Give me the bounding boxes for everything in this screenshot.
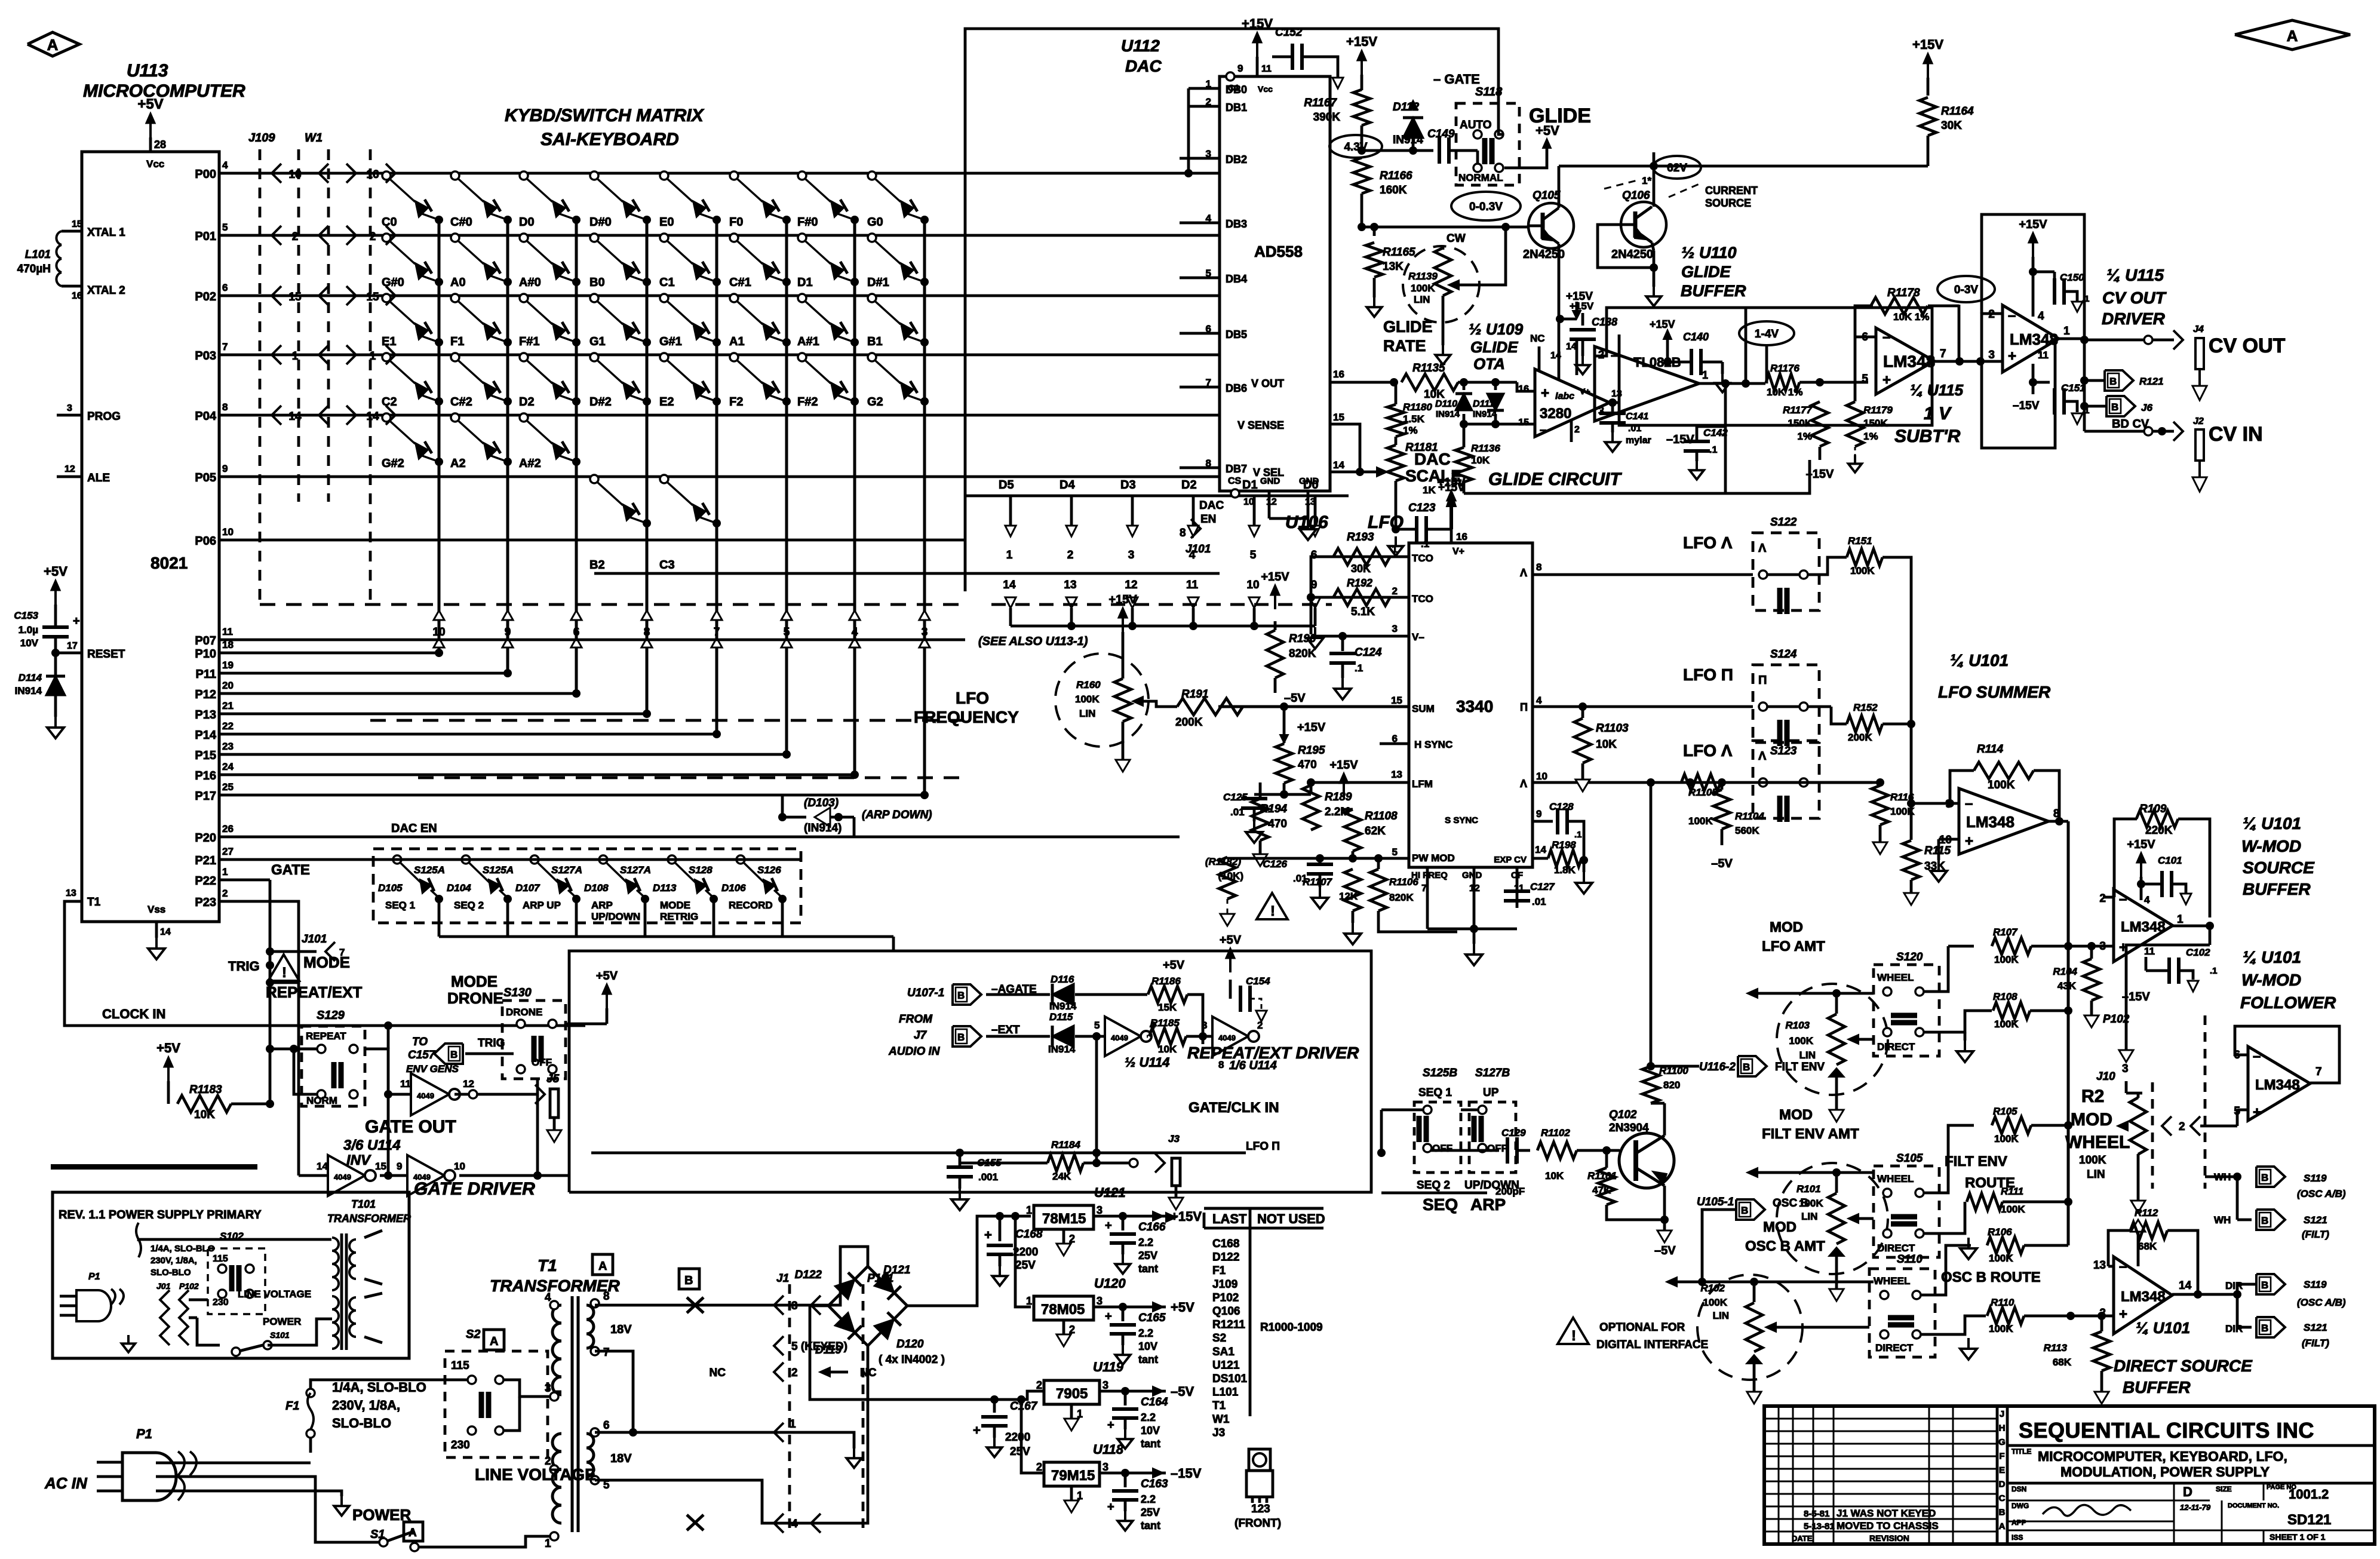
svg-text:D104: D104 <box>447 882 471 894</box>
svg-text:H: H <box>1999 1423 2006 1434</box>
svg-text:14: 14 <box>1333 459 1344 471</box>
svg-text:2: 2 <box>1392 585 1398 597</box>
svg-text:S125A: S125A <box>483 864 514 876</box>
svg-text:9: 9 <box>222 463 228 474</box>
svg-text:1.8K: 1.8K <box>1554 864 1576 876</box>
svg-text:5: 5 <box>1392 846 1398 858</box>
svg-text:S127A: S127A <box>620 864 651 876</box>
svg-text:8: 8 <box>603 1290 610 1303</box>
svg-text:GND: GND <box>1260 476 1280 486</box>
resistor R1101 47K <box>1598 1168 1615 1205</box>
svg-text:!: ! <box>1270 903 1275 919</box>
ic U106 3340 <box>1409 543 1533 867</box>
svg-text:3: 3 <box>1103 1379 1108 1391</box>
svg-text:DAC: DAC <box>1199 499 1224 512</box>
svg-text:AD558: AD558 <box>1254 243 1303 260</box>
svg-text:100K: 100K <box>1411 283 1435 294</box>
svg-text:SLO-BLO: SLO-BLO <box>151 1268 191 1278</box>
svg-text:P10: P10 <box>195 647 216 661</box>
ground below D114 <box>54 717 57 728</box>
wire wmod out down <box>2209 926 2212 945</box>
svg-text:S105: S105 <box>1896 1152 1923 1165</box>
svg-text:3: 3 <box>67 403 72 413</box>
svg-text:( 4x IN4002 ): ( 4x IN4002 ) <box>879 1354 945 1366</box>
svg-text:2: 2 <box>370 231 376 243</box>
svg-text:+15V: +15V <box>1297 721 1326 734</box>
svg-text:REVISION: REVISION <box>1869 1533 1909 1543</box>
svg-text:1.0µ: 1.0µ <box>19 624 38 636</box>
svg-text:15: 15 <box>288 291 302 303</box>
svg-text:R110: R110 <box>1991 1297 2014 1308</box>
svg-text:10: 10 <box>1243 497 1254 507</box>
svg-text:D: D <box>1999 1480 2006 1490</box>
wire matrix column 8 <box>923 220 926 795</box>
svg-text:D106: D106 <box>721 882 746 894</box>
pin 16 V+ +15V <box>1450 515 1453 543</box>
wire J101 common to ground <box>1011 625 1315 628</box>
svg-text:¼ U101: ¼ U101 <box>2243 814 2301 833</box>
key switch+diode C3 <box>660 475 668 483</box>
svg-text:DOCUMENT NO.: DOCUMENT NO. <box>2228 1502 2279 1509</box>
svg-text:D2: D2 <box>519 395 535 409</box>
switch S129 REPEAT/NORM <box>302 1026 365 1106</box>
switch S126 diode D106 <box>736 855 745 864</box>
svg-text:IN914: IN914 <box>1436 409 1460 419</box>
svg-text:tant: tant <box>1138 1354 1158 1365</box>
svg-text:D120: D120 <box>896 1338 924 1351</box>
svg-text:1-4V: 1-4V <box>1755 328 1779 340</box>
svg-text:D4: D4 <box>1060 478 1075 492</box>
svg-text:C142: C142 <box>1703 427 1728 438</box>
svg-text:GATE: GATE <box>271 862 310 878</box>
title block revision grid <box>1764 1418 1997 1420</box>
svg-text:P102: P102 <box>179 1281 199 1291</box>
svg-text:tant: tant <box>1138 1263 1158 1275</box>
svg-text:Λ: Λ <box>1758 750 1767 763</box>
svg-text:9: 9 <box>1237 63 1243 74</box>
svg-text:C1: C1 <box>659 276 675 289</box>
svg-text:GLIDE CIRCUIT: GLIDE CIRCUIT <box>1488 469 1622 489</box>
svg-text:S121: S121 <box>2304 1322 2327 1333</box>
svg-text:100K: 100K <box>1850 565 1875 576</box>
sheet marker A top-left <box>27 32 79 56</box>
svg-text:+: + <box>1105 1310 1112 1323</box>
inverter gate out 11-12 <box>388 1093 411 1096</box>
svg-text:8-5-81: 8-5-81 <box>1804 1509 1829 1519</box>
svg-text:D107: D107 <box>515 882 541 894</box>
svg-text:C138: C138 <box>1592 316 1617 328</box>
svg-text:78M05: 78M05 <box>1041 1302 1085 1318</box>
svg-text:100K: 100K <box>1988 779 2015 791</box>
svg-text:47K: 47K <box>1592 1184 1611 1196</box>
svg-text:GLIDE: GLIDE <box>1681 263 1731 281</box>
svg-text:14: 14 <box>160 927 171 937</box>
svg-text:T1: T1 <box>538 1256 557 1275</box>
svg-text:23: 23 <box>222 741 234 752</box>
svg-text:10K: 10K <box>1596 738 1617 751</box>
svg-text:13: 13 <box>66 888 76 898</box>
resistor R113 68K <box>2093 1331 2110 1371</box>
key switch+diode D#1 <box>868 234 876 242</box>
oval 0-0.3V <box>1451 192 1521 220</box>
svg-text:UP: UP <box>1483 1087 1499 1099</box>
svg-text:R198: R198 <box>1552 839 1576 851</box>
svg-text:HI FREQ: HI FREQ <box>1411 870 1448 880</box>
svg-text:LFO: LFO <box>956 689 989 707</box>
dashed cable bus line 3 <box>418 777 965 779</box>
svg-text:10K: 10K <box>1471 455 1490 466</box>
svg-text:CW: CW <box>1447 232 1466 245</box>
svg-text:B: B <box>2261 1215 2268 1226</box>
connector arrows column 2 <box>502 610 513 620</box>
svg-text:MICROCOMPUTER: MICROCOMPUTER <box>83 81 245 101</box>
svg-text:2: 2 <box>1036 1461 1042 1473</box>
svg-text:11: 11 <box>1186 579 1199 591</box>
pin 3 PROG <box>57 414 82 417</box>
resistor R1164 30K <box>1920 97 1936 136</box>
wire Q105 collector down to 3280 V+ <box>1558 244 1561 380</box>
svg-text:10K: 10K <box>1158 1044 1177 1055</box>
svg-text:1: 1 <box>1006 549 1013 561</box>
key switch+diode F#0 <box>798 171 806 180</box>
svg-text:24K: 24K <box>1052 1171 1071 1182</box>
svg-text:L101: L101 <box>1212 1386 1239 1399</box>
power +15V R1108 <box>1343 782 1345 797</box>
potentiometer R103 100K LIN <box>1777 984 1888 1095</box>
svg-text:(FILT): (FILT) <box>2302 1337 2329 1349</box>
svg-text:25V: 25V <box>1015 1259 1036 1272</box>
svg-text:B2: B2 <box>589 558 605 572</box>
ic U113 8021 microcomputer <box>82 152 219 922</box>
svg-text:R104: R104 <box>2053 966 2077 977</box>
power +15V R1164 <box>1927 62 1929 78</box>
wire TL082 out <box>1699 382 1765 385</box>
svg-text:1K: 1K <box>1423 484 1436 496</box>
svg-text:(OSC A/B): (OSC A/B) <box>2297 1297 2346 1308</box>
svg-text:12: 12 <box>1125 579 1137 591</box>
svg-text:820K: 820K <box>1289 647 1316 660</box>
svg-text:ALE: ALE <box>87 472 110 484</box>
switch S127A diode D107 <box>530 855 539 864</box>
svg-text:J01: J01 <box>156 1281 171 1291</box>
svg-text:NORMAL: NORMAL <box>1458 172 1503 183</box>
wire Q106 collector emitter vertical <box>1653 152 1656 207</box>
svg-text:SEQ 2: SEQ 2 <box>1417 1179 1450 1192</box>
current source dashed <box>1604 180 1637 189</box>
svg-text:P15: P15 <box>195 749 216 762</box>
svg-text:6: 6 <box>222 282 228 293</box>
diode D122 <box>834 1279 855 1300</box>
svg-text:Λ: Λ <box>1520 567 1527 579</box>
svg-text:–15V: –15V <box>1806 468 1834 481</box>
connector arrows column 3 <box>571 610 582 620</box>
svg-text:FREQUENCY: FREQUENCY <box>914 708 1019 726</box>
svg-text:W-MOD: W-MOD <box>2241 971 2301 989</box>
svg-text:NORM: NORM <box>306 1095 337 1106</box>
resistor R1180 1.5K 1% <box>1387 404 1404 437</box>
svg-text:NC: NC <box>1530 333 1545 344</box>
pin 14 V+ 3280 <box>1576 340 1579 375</box>
svg-text:1: 1 <box>545 1537 551 1550</box>
svg-text:DRONE: DRONE <box>506 1006 542 1018</box>
svg-text:G0: G0 <box>867 216 883 229</box>
svg-text:19: 19 <box>222 659 234 671</box>
svg-text:+: + <box>2008 348 2016 364</box>
svg-text:R106: R106 <box>1988 1226 2012 1238</box>
svg-text:R1179: R1179 <box>1863 404 1893 416</box>
svg-text:+: + <box>1107 1419 1114 1432</box>
svg-text:A#0: A#0 <box>519 276 541 289</box>
svg-text:3280: 3280 <box>1540 406 1571 422</box>
resistor R1135 10K <box>1402 374 1458 391</box>
svg-text:S SYNC: S SYNC <box>1445 815 1478 825</box>
svg-text:TCO: TCO <box>1412 593 1433 604</box>
svg-text:MODULATION, POWER SUPPLY: MODULATION, POWER SUPPLY <box>2060 1464 2270 1480</box>
svg-text:J10: J10 <box>2096 1070 2115 1083</box>
svg-text:4: 4 <box>2144 894 2150 906</box>
svg-text:C157: C157 <box>408 1049 436 1061</box>
svg-text:S119: S119 <box>2304 1173 2327 1184</box>
svg-text:R1104: R1104 <box>1735 811 1764 822</box>
key switch+diode D0 <box>520 171 528 180</box>
svg-text:AUDIO IN: AUDIO IN <box>888 1045 941 1058</box>
wire to U120 <box>1015 1216 1031 1307</box>
svg-text:TRANSFORMER: TRANSFORMER <box>490 1276 621 1295</box>
wire mod bus filt <box>1753 1171 1874 1174</box>
svg-text:P14: P14 <box>195 729 216 742</box>
resistor R106 100K <box>1920 1245 1971 1295</box>
svg-text:ARP: ARP <box>591 900 613 911</box>
svg-text:MODE: MODE <box>660 900 690 911</box>
svg-text:B: B <box>1999 1508 2006 1518</box>
svg-text:R1000-1009: R1000-1009 <box>1260 1321 1323 1334</box>
svg-text:T101: T101 <box>351 1198 376 1210</box>
svg-text:C#1: C#1 <box>729 276 751 289</box>
svg-text:J109: J109 <box>1212 1278 1237 1291</box>
svg-text:RATE: RATE <box>1383 337 1426 355</box>
svg-text:SIZE: SIZE <box>2216 1485 2232 1493</box>
svg-text:13: 13 <box>1391 769 1402 780</box>
capacitor C165 2.2 10V tant <box>1122 1307 1125 1321</box>
svg-text:100K: 100K <box>1075 693 1100 705</box>
key switch+diode A2 <box>451 413 459 422</box>
svg-text:1: 1 <box>1392 544 1398 555</box>
svg-text:DRIVER: DRIVER <box>2102 309 2166 328</box>
svg-text:MODE: MODE <box>451 972 498 990</box>
svg-text:LM348: LM348 <box>2255 1077 2300 1093</box>
wire diodes to 3280 minus <box>1464 423 1535 426</box>
flag DIR S121 FILT <box>2236 1294 2239 1327</box>
resistor R1177 150K 1% <box>1811 402 1828 447</box>
pin 9 C1 <box>1226 72 1234 81</box>
wire cv driver top box <box>1982 214 2084 340</box>
svg-text:.1: .1 <box>1355 662 1363 674</box>
svg-text:100K: 100K <box>1789 1035 1813 1047</box>
svg-text:1: 1 <box>1702 369 1708 381</box>
ground lfo route <box>1964 1032 1967 1041</box>
svg-text:R113: R113 <box>2044 1342 2068 1354</box>
connector arrows column 6 <box>781 610 792 620</box>
svg-text:20: 20 <box>222 680 234 691</box>
wire F1 top <box>311 1380 357 1389</box>
svg-text:WH: WH <box>2214 1171 2231 1183</box>
wire row P10 <box>219 652 439 655</box>
svg-text:F1: F1 <box>450 335 464 348</box>
resistor R1104 560K <box>1713 790 1730 829</box>
svg-text:390K: 390K <box>1313 111 1341 124</box>
wire drone to gate bus <box>536 1079 539 1176</box>
key switch+diode C#2 <box>451 353 459 361</box>
svg-text:3: 3 <box>1097 1295 1103 1307</box>
svg-text:S123: S123 <box>1770 745 1797 757</box>
svg-text:43K: 43K <box>2057 980 2077 992</box>
svg-text:DAC: DAC <box>1125 57 1162 75</box>
capacitor C163 2.2 25V tant <box>1124 1473 1127 1487</box>
svg-text:4: 4 <box>2038 310 2044 323</box>
svg-text:P1: P1 <box>88 1272 100 1282</box>
svg-text:J101: J101 <box>302 933 327 946</box>
svg-text:DWG: DWG <box>2012 1502 2029 1510</box>
svg-text:2.2: 2.2 <box>1141 1493 1156 1505</box>
svg-text:25: 25 <box>222 781 234 793</box>
pin 11 Vcc +15V <box>1256 57 1259 76</box>
svg-text:V+: V+ <box>1452 547 1464 557</box>
svg-text:30K: 30K <box>1941 119 1962 132</box>
svg-text:100K: 100K <box>1994 1133 2019 1144</box>
svg-text:1*: 1* <box>1642 175 1651 186</box>
svg-text:1: 1 <box>292 350 299 363</box>
svg-text:1001.2: 1001.2 <box>2289 1487 2329 1502</box>
svg-text:F#0: F#0 <box>797 216 818 229</box>
svg-text:V+: V+ <box>1580 386 1590 396</box>
svg-text:123: 123 <box>1251 1503 1270 1515</box>
svg-text:S126: S126 <box>757 864 781 876</box>
svg-text:ARP: ARP <box>1470 1195 1506 1214</box>
svg-text:R105: R105 <box>1993 1106 2017 1117</box>
svg-text:WHEEL: WHEEL <box>1874 1275 1910 1287</box>
capacitor C155 .001 <box>1092 1149 1101 1157</box>
svg-text:OFF: OFF <box>1432 1143 1452 1154</box>
svg-text:R114: R114 <box>1977 743 2003 756</box>
svg-text:GND: GND <box>1462 870 1482 880</box>
svg-text:10: 10 <box>1536 771 1547 782</box>
svg-text:12: 12 <box>65 464 75 474</box>
svg-text:200K: 200K <box>1175 716 1203 729</box>
svg-text:11: 11 <box>400 1078 411 1090</box>
svg-text:(D103): (D103) <box>804 797 839 809</box>
svg-text:B: B <box>450 1049 457 1060</box>
svg-text:MODE: MODE <box>303 953 350 971</box>
svg-text:SA1: SA1 <box>1212 1346 1234 1358</box>
wire row P00 <box>219 172 1220 175</box>
svg-text:16: 16 <box>366 168 379 181</box>
svg-text:10K 1%: 10K 1% <box>1767 386 1802 398</box>
ic U112 AD558 <box>1220 76 1330 491</box>
wire cv driver feedback <box>1982 314 2055 448</box>
svg-text:IN914: IN914 <box>1048 1044 1076 1055</box>
svg-text:U107-1: U107-1 <box>907 987 944 999</box>
switch S125A diode D105 <box>393 855 401 864</box>
svg-text:NOT USED: NOT USED <box>1257 1211 1325 1226</box>
svg-text:LFO Π: LFO Π <box>1683 665 1733 684</box>
svg-text:P07: P07 <box>195 634 216 647</box>
svg-text:L101: L101 <box>25 248 51 261</box>
svg-text:MOD: MOD <box>2071 1110 2112 1130</box>
svg-text:+15V: +15V <box>1108 593 1137 606</box>
svg-text:LAST: LAST <box>1212 1211 1247 1226</box>
resistor R1165 13K <box>1373 227 1376 236</box>
svg-text:–5V: –5V <box>1711 857 1733 870</box>
svg-text:D110: D110 <box>1435 399 1457 409</box>
potentiometer R101 100K LIN <box>1777 1163 1888 1274</box>
wire Q106 base-collector tie <box>1598 225 1654 268</box>
svg-text:DB5: DB5 <box>1226 329 1247 340</box>
svg-text:10: 10 <box>222 526 234 538</box>
svg-text:C1: C1 <box>1228 83 1239 93</box>
bridge rectifier D119-D122 <box>828 1266 907 1346</box>
connector arrows column 8 <box>919 610 930 620</box>
wire ac prong3 to power switch <box>156 1477 379 1542</box>
capacitor C167 2200 25V <box>990 1395 999 1404</box>
svg-text:2: 2 <box>1067 549 1074 561</box>
svg-text:10V: 10V <box>20 637 39 649</box>
wires primary box <box>139 1238 331 1241</box>
svg-text:PROG: PROG <box>87 410 121 423</box>
op-amp LM348 CV OUT driver U115 <box>2003 305 2059 372</box>
svg-text:14: 14 <box>2179 1279 2192 1292</box>
svg-text:F#1: F#1 <box>519 335 539 348</box>
wire trig net <box>219 879 270 882</box>
svg-text:R192: R192 <box>1347 577 1372 589</box>
connector J101 trig <box>270 950 317 953</box>
dashed connector line J101 <box>991 603 1332 606</box>
svg-text:(IN914): (IN914) <box>804 822 842 834</box>
svg-text:+: + <box>1965 833 1973 849</box>
svg-text:14: 14 <box>1535 844 1546 855</box>
svg-text:¼ U101: ¼ U101 <box>1950 651 2009 670</box>
svg-text:P11: P11 <box>196 668 216 681</box>
wire t1 pin6 to J1 pin1 <box>595 1431 805 1434</box>
oval 6.2V <box>1653 156 1701 179</box>
svg-text:2: 2 <box>1574 425 1580 435</box>
svg-text:A: A <box>2287 27 2298 45</box>
svg-text:–: – <box>1611 348 1618 363</box>
svg-text:+: + <box>1541 385 1549 401</box>
key switch+diode C#1 <box>730 234 738 242</box>
svg-text:R1103: R1103 <box>1596 722 1629 735</box>
svg-text:R108: R108 <box>1993 991 2017 1002</box>
svg-text:+5V: +5V <box>137 96 163 112</box>
svg-text:P21: P21 <box>195 854 216 867</box>
svg-text:+15V: +15V <box>1437 476 1466 489</box>
capacitor C125 .01 <box>1254 793 1284 796</box>
svg-text:P1: P1 <box>136 1426 152 1441</box>
svg-text:4049: 4049 <box>417 1091 434 1100</box>
svg-text:F1: F1 <box>1212 1265 1226 1277</box>
svg-text:24: 24 <box>222 761 234 772</box>
pin 2 3280 <box>1570 419 1573 442</box>
resistor R1178 10K 1% feedback <box>1855 306 1873 337</box>
svg-text:150K: 150K <box>1788 418 1812 429</box>
svg-text:V OUT: V OUT <box>1251 378 1284 389</box>
svg-text:MOD: MOD <box>1779 1107 1813 1123</box>
table LAST NOT USED <box>1204 1207 1323 1210</box>
warning triangle mode <box>268 955 299 981</box>
svg-text:(FILT): (FILT) <box>2302 1229 2329 1240</box>
svg-text:A0: A0 <box>450 276 466 289</box>
key switch+diode G#1 <box>660 294 668 302</box>
svg-text:1: 1 <box>222 866 228 877</box>
